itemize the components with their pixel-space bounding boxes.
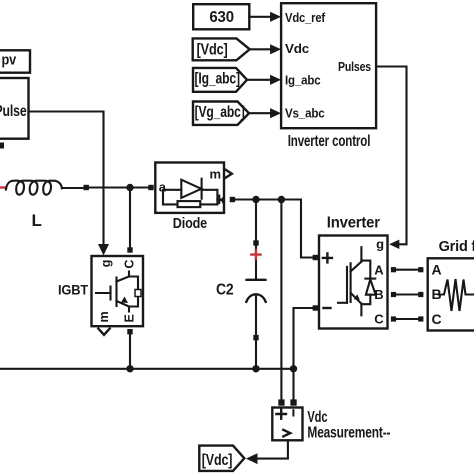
- svg-text:E: E: [123, 314, 137, 322]
- svg-text:pv: pv: [2, 52, 17, 69]
- from tag Vdc: [193, 38, 250, 60]
- diode symbol: [166, 189, 182, 191]
- svg-text:k: k: [218, 192, 226, 207]
- svg-text:Pulses: Pulses: [338, 59, 371, 74]
- port square: C2 top: [253, 240, 258, 245]
- DC- rail wire: [0, 368, 294, 370]
- svg-text:Ig_abc: Ig_abc: [285, 72, 321, 87]
- svg-text:A: A: [432, 261, 442, 277]
- port square: grid C: [418, 316, 423, 321]
- wire inverter A to grid A: [396, 269, 418, 271]
- wire Vg_abc to inverter control: [249, 112, 270, 114]
- inverter block: [319, 215, 388, 329]
- svg-text:g: g: [99, 260, 113, 267]
- from tag Ig_abc: [193, 68, 247, 92]
- from tag Vg_abc: [193, 102, 249, 125]
- wire from Pulse to IGBT gate: [29, 112, 104, 245]
- capacitor C2: [216, 246, 266, 335]
- wire C2 bottom to DC- rail: [255, 340, 257, 369]
- DC+ wire from diode k to inverter +: [235, 200, 313, 258]
- inverter IGBT/diode icon: [338, 302, 347, 304]
- goto tag pv: [0, 50, 30, 72]
- wire measurement output to goto Vdc: [258, 440, 288, 458]
- port square: grid B: [418, 292, 423, 297]
- svg-text:IGBT: IGBT: [58, 283, 89, 298]
- svg-text:Vdc_ref: Vdc_ref: [285, 10, 326, 25]
- m measurement chevron: [225, 169, 232, 178]
- wire Pulses to inverter g: [376, 67, 406, 245]
- svg-text:Pulse: Pulse: [0, 103, 27, 120]
- node junction measurement minus: [290, 365, 297, 372]
- svg-text:[Vdc]: [Vdc]: [202, 452, 233, 469]
- port square: C2 bottom: [253, 335, 258, 340]
- node junction to C2: [252, 196, 259, 203]
- svg-text:C: C: [432, 311, 442, 327]
- wire E to DC- rail: [129, 334, 131, 368]
- wire node to C2 top: [255, 200, 257, 241]
- wire 630 to Vdc_ref: [249, 16, 270, 18]
- IGBT block (rotated): [58, 256, 143, 326]
- svg-text:[Vg_abc]: [Vg_abc]: [195, 104, 245, 121]
- wire DC+ node down to measurement plus: [280, 200, 282, 400]
- top plate: [247, 279, 266, 281]
- node junction on boost line: [126, 184, 133, 191]
- wire Ig_abc to inverter control: [247, 79, 270, 81]
- PV positive lead (red): [0, 186, 6, 188]
- svg-text:Measurement--: Measurement--: [307, 425, 390, 442]
- svg-text:m: m: [210, 166, 221, 181]
- curved plate: [246, 294, 265, 302]
- svg-text:m: m: [97, 312, 111, 323]
- wire inverter minus to rail and measurement minus: [294, 308, 313, 399]
- node junction IGBT E: [126, 365, 133, 372]
- svg-text:C: C: [374, 312, 384, 327]
- wire Vdc to inverter control: [250, 48, 271, 50]
- svg-text:Vdc: Vdc: [285, 41, 309, 56]
- node junction C2 bottom: [252, 365, 259, 372]
- port square: grid A: [418, 267, 423, 272]
- port square: inverter B: [391, 292, 396, 297]
- goto tag Vdc: [199, 446, 244, 471]
- port square: inverter A: [391, 267, 396, 272]
- port square: diode a input: [148, 185, 153, 190]
- arrowhead into goto Vdc: [246, 453, 258, 464]
- svg-text:Grid fault: Grid fault: [439, 239, 474, 255]
- svg-text:g: g: [376, 237, 384, 252]
- port square: inverter C: [391, 316, 396, 321]
- svg-text:C: C: [123, 260, 137, 269]
- port square: IGBT C: [127, 247, 132, 252]
- IGBT icon (rotated): [96, 292, 111, 294]
- svg-text:[Vdc]: [Vdc]: [197, 41, 228, 58]
- svg-text:[Ig_abc]: [Ig_abc]: [195, 71, 240, 88]
- red plus: [251, 250, 260, 259]
- svg-text:Inverter control: Inverter control: [288, 133, 371, 150]
- svg-text:Vdc: Vdc: [307, 409, 327, 426]
- snubber resistor: [163, 190, 178, 205]
- arrowhead into IGBT g: [98, 244, 109, 256]
- port square: measurement +: [278, 399, 284, 405]
- inductor L: [6, 181, 84, 230]
- inverter control block: [281, 3, 376, 150]
- svg-text:L: L: [32, 211, 42, 230]
- grid impedance zigzag: [439, 279, 474, 311]
- svg-text:630: 630: [209, 9, 234, 26]
- port square: inverter -: [313, 305, 318, 310]
- port square: IGBT E: [127, 329, 132, 334]
- port square: diode k output: [230, 197, 235, 202]
- svg-text:Vs_abc: Vs_abc: [285, 106, 325, 121]
- wire junction down to IGBT collector: [129, 188, 131, 248]
- port square: inverter +: [313, 255, 318, 260]
- svg-text:Inverter: Inverter: [327, 215, 380, 232]
- wire inverter B to grid B: [396, 293, 418, 295]
- m output chevron below IGBT: [98, 329, 109, 335]
- constant 630: [193, 4, 249, 29]
- svg-text:A: A: [374, 263, 384, 278]
- pulse generator block: [0, 78, 29, 139]
- port stub of cut-off block: [0, 143, 4, 149]
- node junction to Vdc measurement +: [278, 196, 285, 203]
- diode block: [155, 163, 232, 233]
- svg-text:Diode: Diode: [173, 216, 207, 232]
- Vdc measurement block: [272, 408, 390, 442]
- wire inverter C to grid C: [396, 318, 418, 320]
- svg-text:C2: C2: [216, 281, 234, 298]
- port square: measurement -: [290, 399, 296, 405]
- wire inductor to diode: [89, 186, 148, 188]
- port square: inductor output: [84, 185, 89, 190]
- arrowhead into inverter g: [389, 240, 399, 249]
- grid block: [428, 239, 474, 331]
